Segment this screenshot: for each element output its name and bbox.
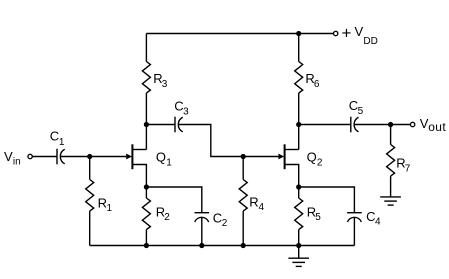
node R1 tap junction <box>87 154 92 159</box>
wire C2 bottom lead <box>201 217 203 245</box>
terminal Vin open circle <box>28 154 32 158</box>
resistor R7 <box>387 145 395 177</box>
wire drain node to C5 <box>299 124 351 126</box>
svg-text:C: C <box>50 128 59 143</box>
wire node to C3 left plate <box>146 124 175 126</box>
resistor R4 <box>239 180 247 212</box>
wire R1 bottom lead <box>89 211 91 245</box>
svg-text:Q: Q <box>307 149 317 164</box>
wire C1 to Q1 gate <box>60 156 126 158</box>
svg-text:2: 2 <box>222 218 228 229</box>
svg-text:+: + <box>342 24 352 43</box>
wire R4 top lead <box>242 157 244 180</box>
wire R6 bottom lead <box>298 93 300 124</box>
wire C5 to output <box>354 124 410 126</box>
resistor R5 <box>295 198 303 230</box>
wire source node to C2 <box>146 187 201 213</box>
node Q2 drain junction <box>296 122 301 127</box>
node R4 bottom junction <box>241 243 246 248</box>
capacitor C4 <box>347 212 362 214</box>
resistor R3 <box>142 62 150 94</box>
svg-text:DD: DD <box>363 36 377 47</box>
wire R3 top lead <box>145 34 147 62</box>
wire R5 top lead <box>298 187 300 198</box>
svg-text:7: 7 <box>405 163 411 174</box>
wire R7 top lead <box>390 125 392 145</box>
capacitor C3 <box>174 117 176 133</box>
wire R2 top lead <box>145 187 147 198</box>
wire R5 bottom lead <box>298 230 300 246</box>
wire R4 bottom lead <box>242 211 244 245</box>
resistor R1 <box>86 180 94 212</box>
wire top supply rail <box>146 33 333 35</box>
node C3/R3/drain junction <box>144 122 149 127</box>
svg-text:Q: Q <box>156 149 166 164</box>
node R2 bottom junction <box>144 243 149 248</box>
wire R1 top lead <box>89 157 91 180</box>
svg-text:3: 3 <box>183 106 189 117</box>
wire R2 bottom lead <box>145 230 147 246</box>
node VDD junction <box>296 31 301 36</box>
node R5 bottom junction <box>296 243 301 248</box>
node R4 tap junction <box>241 154 246 159</box>
wire drain column Q1 <box>145 125 147 150</box>
svg-text:3: 3 <box>162 79 168 90</box>
svg-text:V: V <box>4 149 13 164</box>
transistor Q1 <box>131 144 133 169</box>
wire R3 bottom lead to drain node <box>145 93 147 124</box>
transistor Q2 <box>284 144 286 169</box>
wire R7 bottom lead <box>390 176 392 197</box>
svg-text:1: 1 <box>166 157 172 168</box>
resistor R2 <box>142 198 150 230</box>
capacitor C1 <box>56 149 58 165</box>
svg-text:2: 2 <box>317 157 323 168</box>
svg-text:5: 5 <box>358 106 364 117</box>
svg-text:6: 6 <box>314 79 320 90</box>
wire C3 to Q2 gate <box>178 125 278 157</box>
capacitor C2 <box>195 212 210 214</box>
capacitor C5 <box>350 117 352 133</box>
terminal Vout open circle <box>410 122 414 126</box>
ground below R5 <box>298 246 300 259</box>
wire bottom rail <box>90 245 355 247</box>
node C2 bottom junction <box>199 243 204 248</box>
node Q2 source junction <box>296 184 301 189</box>
node Q1 source junction <box>144 184 149 189</box>
svg-text:in: in <box>13 156 21 167</box>
svg-text:5: 5 <box>315 212 321 223</box>
wire drain column Q2 <box>298 125 300 150</box>
svg-text:1: 1 <box>59 137 65 148</box>
svg-text:2: 2 <box>164 212 170 223</box>
svg-text:V: V <box>355 24 364 39</box>
svg-text:R: R <box>249 195 258 210</box>
resistor R6 <box>295 62 303 94</box>
wire R6 top lead <box>298 34 300 62</box>
wire Vin to C1 <box>32 156 57 158</box>
svg-text:4: 4 <box>375 217 381 228</box>
svg-text:1: 1 <box>107 203 113 214</box>
ground below R7 <box>380 196 401 198</box>
svg-text:out: out <box>428 120 446 134</box>
svg-text:4: 4 <box>259 202 265 213</box>
terminal VDD open circle <box>334 31 338 35</box>
node R7 tap junction <box>388 122 393 127</box>
wire C4 bottom lead <box>353 217 355 245</box>
wire source node to C4 <box>299 187 355 213</box>
